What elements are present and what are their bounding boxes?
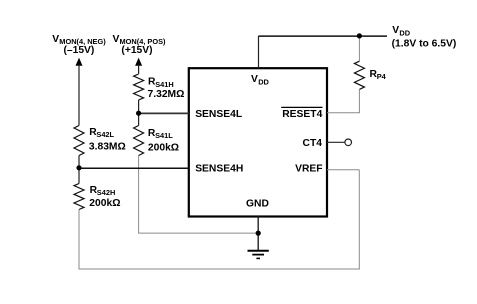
- wire POS rail lower: [138, 156, 140, 234]
- wire VMON(4,NEG) rail upper: [78, 65, 80, 126]
- svg-text:V: V: [52, 34, 59, 45]
- wire VDD pin riser: [258, 36, 260, 68]
- wire GND pin stub: [257, 217, 259, 251]
- wire RP4 lower lead: [358, 89, 360, 112]
- resistor RS42H: [74, 184, 84, 210]
- wire POS rail to SENSE4L junction: [138, 100, 140, 126]
- svg-text:200kΩ: 200kΩ: [89, 198, 120, 209]
- svg-text:VREF: VREF: [295, 163, 322, 174]
- junction GND node: [256, 231, 261, 236]
- svg-text:RESET4: RESET4: [282, 109, 322, 120]
- node VMON(4,NEG) label: [52, 34, 106, 56]
- svg-text:(+15V): (+15V): [121, 45, 152, 56]
- wire bottom run: [79, 268, 360, 270]
- svg-text:CT4: CT4: [303, 138, 323, 149]
- wire RP4 upper lead: [358, 36, 360, 61]
- svg-text:S41L: S41L: [155, 131, 173, 140]
- svg-text:3.83MΩ: 3.83MΩ: [89, 141, 126, 152]
- svg-text:DD: DD: [258, 78, 269, 87]
- wire VDD top run: [259, 35, 388, 37]
- svg-text:200kΩ: 200kΩ: [148, 142, 179, 153]
- value RS42H 200kOhm: [89, 185, 120, 209]
- ground symbol: [248, 251, 269, 259]
- pin VDD label: [251, 74, 270, 87]
- svg-text:V: V: [113, 34, 120, 45]
- svg-text:(1.8V to 6.5V): (1.8V to 6.5V): [392, 38, 457, 49]
- node VMON(4,NEG) arrow terminal: [76, 58, 83, 66]
- svg-text:7.32MΩ: 7.32MΩ: [148, 89, 185, 100]
- wire SENSE4L: [139, 112, 189, 114]
- svg-text:(–15V): (–15V): [63, 45, 94, 56]
- svg-text:S41H: S41H: [155, 80, 174, 89]
- wire VMON(4,POS) rail upper: [138, 65, 140, 74]
- wire to GND node: [138, 232, 258, 234]
- svg-text:DD: DD: [399, 29, 410, 38]
- terminal CT4 open circle: [345, 139, 352, 146]
- node VMON(4,POS) label: [113, 34, 167, 56]
- svg-text:V: V: [392, 25, 399, 36]
- wire SENSE4H: [79, 167, 189, 169]
- node VMON(4,POS) arrow terminal: [135, 58, 142, 66]
- op-amp U1 (supply monitor IC body): [189, 68, 327, 216]
- svg-text:GND: GND: [246, 199, 269, 210]
- wire right riser to VREF: [358, 170, 360, 269]
- svg-text:SENSE4L: SENSE4L: [195, 109, 242, 120]
- resistor RS41L: [134, 126, 144, 156]
- pin RESET4 label (active-low overline): [281, 107, 322, 119]
- value RS41H 7.32MOhm: [148, 77, 185, 100]
- junction VDD node: [357, 33, 362, 38]
- wire NEG rail lower: [78, 210, 80, 270]
- value RP4: [370, 69, 387, 81]
- wire RESET4 stub: [327, 112, 360, 114]
- svg-text:S42L: S42L: [96, 130, 114, 139]
- svg-text:S42H: S42H: [97, 188, 116, 197]
- svg-text:V: V: [251, 74, 258, 85]
- svg-text:P4: P4: [377, 72, 387, 81]
- resistor RP4: [354, 61, 364, 89]
- svg-text:SENSE4H: SENSE4H: [195, 163, 243, 174]
- value RS42L 3.83MOhm: [89, 127, 126, 152]
- wire NEG rail mid: [78, 156, 80, 184]
- junction SENSE4L node: [136, 111, 141, 116]
- node VDD supply label: [392, 25, 457, 49]
- value RS41L 200kOhm: [148, 128, 179, 154]
- wire VREF stub: [327, 169, 359, 171]
- resistor RS41H: [134, 74, 144, 100]
- wire CT4 stub: [327, 141, 345, 143]
- junction SENSE4H node: [76, 165, 81, 170]
- resistor RS42L: [74, 126, 84, 156]
